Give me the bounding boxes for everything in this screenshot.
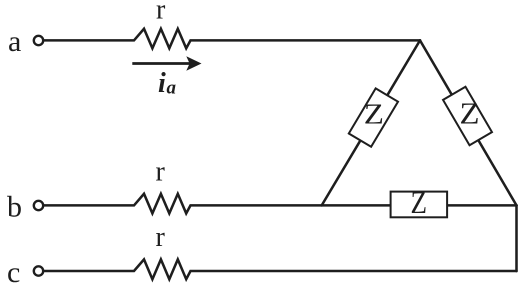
svg-text:a: a xyxy=(167,78,177,99)
svg-text:Z: Z xyxy=(460,96,480,131)
svg-text:r: r xyxy=(156,157,166,188)
svg-text:a: a xyxy=(8,25,21,58)
svg-text:r: r xyxy=(156,0,166,26)
svg-text:c: c xyxy=(7,256,20,289)
svg-text:r: r xyxy=(156,222,166,253)
svg-text:b: b xyxy=(7,191,22,224)
svg-text:i: i xyxy=(158,68,166,99)
svg-text:Z: Z xyxy=(364,98,384,130)
svg-text:Z: Z xyxy=(411,184,428,220)
